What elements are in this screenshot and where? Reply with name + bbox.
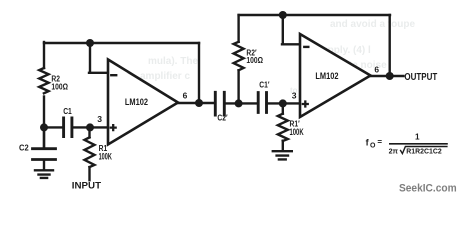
- svg-text:2π: 2π: [389, 146, 399, 155]
- svg-text:mula). The: mula). The: [148, 56, 198, 67]
- wire C1' to op2 plus: [268, 102, 300, 104]
- svg-text:C1′: C1′: [259, 80, 269, 90]
- wire op2 output line: [369, 75, 404, 77]
- ground below R1': [273, 151, 292, 159]
- wire R2' bottom lead: [237, 70, 239, 103]
- wire top rail stage 2: [239, 14, 390, 16]
- svg-text:=: =: [377, 138, 382, 147]
- wire R1' to ground: [282, 141, 284, 151]
- wire C2 to ground: [43, 160, 45, 169]
- svg-text:R1R2C1C2: R1R2C1C2: [406, 146, 441, 155]
- svg-text:3: 3: [292, 90, 297, 100]
- capacitor C1': [258, 93, 266, 113]
- wire R1 bottom to INPUT: [88, 167, 90, 180]
- svg-text:C1: C1: [63, 106, 72, 116]
- wire feedback vertical stage 1: [198, 43, 200, 103]
- wire R2 bottom to node: [43, 97, 45, 148]
- svg-text:100K: 100K: [99, 151, 113, 162]
- wire C2 top lead: [43, 127, 45, 147]
- svg-text:SeekIC.com: SeekIC.com: [399, 183, 457, 194]
- svg-text:100Ω: 100Ω: [51, 82, 68, 92]
- wire R1 top lead: [88, 127, 90, 137]
- op-amp U1 (LM102): [108, 60, 178, 145]
- svg-text:3: 3: [97, 114, 102, 124]
- svg-text:6: 6: [374, 64, 379, 74]
- node junction dot right of C1 (R1/pin3): [86, 123, 94, 131]
- resistor R2: [39, 68, 48, 93]
- node junction dot C1'/R1'/pin3: [279, 99, 287, 107]
- wire plus line dot to op1: [90, 126, 108, 128]
- node op2 output junction: [386, 72, 394, 80]
- svg-text:LM102: LM102: [315, 70, 338, 81]
- svg-text:6: 6: [183, 90, 188, 100]
- capacitor C1: [64, 118, 72, 137]
- svg-text:O: O: [370, 142, 376, 149]
- ground below C2: [35, 170, 53, 178]
- wire R1' top lead: [282, 103, 284, 113]
- wire top rail stage 1: [44, 42, 199, 44]
- svg-text:OUTPUT: OUTPUT: [404, 71, 437, 82]
- node junction dot on rail 2: [279, 11, 287, 19]
- svg-text:100Ω: 100Ω: [246, 55, 263, 65]
- wire left vertical from rail to R2: [43, 42, 45, 68]
- wire R2' top to rail: [237, 15, 239, 42]
- wire C2' to node R2': [225, 102, 257, 104]
- formula fO = 1/(2pi sqrt(R1R2C1C2)): [366, 133, 448, 156]
- capacitor C2': [215, 92, 224, 115]
- node junction dot C2'/R2': [235, 99, 243, 107]
- svg-text:1: 1: [415, 133, 420, 142]
- wire op1 output line: [177, 102, 215, 104]
- wire minus branch op1: [89, 43, 108, 73]
- resistor R1: [85, 137, 95, 167]
- wire feedback vertical stage 2: [389, 15, 391, 76]
- svg-text:INPUT: INPUT: [72, 181, 101, 192]
- svg-text:amplifier c: amplifier c: [140, 71, 190, 82]
- svg-text:C2′: C2′: [217, 113, 227, 123]
- wire C1 right lead: [73, 126, 90, 128]
- wire minus branch op2: [282, 15, 300, 44]
- node junction dot on rail 1: [86, 39, 94, 47]
- resistor R1': [278, 114, 288, 141]
- node junction dot left (C1/C2/R2): [40, 123, 48, 131]
- op-amp U2 (LM102): [300, 34, 371, 117]
- capacitor C2: [33, 149, 56, 160]
- svg-text:C2: C2: [19, 143, 29, 152]
- svg-text:and avoid a toupe: and avoid a toupe: [330, 19, 415, 30]
- svg-text:100K: 100K: [290, 127, 305, 138]
- wire C1 left lead: [44, 126, 62, 128]
- svg-text:LM102: LM102: [125, 96, 148, 107]
- resistor R2': [234, 42, 244, 70]
- node op1 output junction: [195, 99, 203, 107]
